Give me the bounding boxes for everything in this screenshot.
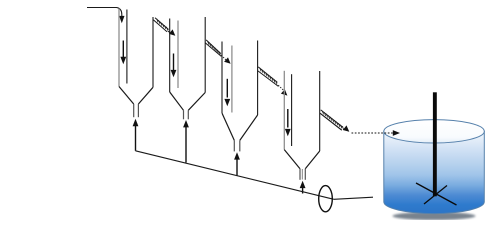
hopper H3 dip tube (231, 46, 233, 113)
hopper H1 inlet up arrow (133, 119, 139, 151)
hopper H2 inlet up arrow (183, 120, 189, 163)
hopper H2 internal down arrow (171, 54, 177, 78)
collection line segment after ellipse (334, 197, 373, 199)
hopper H1 dip tube (126, 10, 128, 84)
hopper H4 body (284, 71, 319, 180)
chute 4 (hatched) from H4 toward tank (320, 110, 349, 132)
stirrer shaft (433, 92, 437, 196)
hopper H2 dip tube (177, 21, 179, 89)
tank bottom shadow (393, 212, 476, 220)
hopper H4 neck inner gray line (301, 169, 303, 180)
chute 1 (hatched) from H1 to H2 (153, 18, 175, 36)
stirrer blade 1 (416, 183, 457, 205)
hopper H4 internal down arrow (285, 109, 291, 136)
hopper H4 inlet up arrow (300, 181, 306, 194)
mixing tank body (384, 131, 485, 213)
hopper H1 body (119, 9, 153, 118)
hopper H2 body (170, 17, 206, 119)
pump/sight-glass ellipse (319, 186, 333, 212)
hopper H3 internal down arrow (224, 79, 230, 107)
hopper H3 body (222, 41, 258, 152)
chute 3 (hatched) from H3 to H4 (258, 67, 288, 96)
mixing tank top ellipse (384, 120, 485, 143)
dashed transfer line into tank (352, 130, 401, 136)
hopper H1 internal down arrow (120, 41, 126, 65)
chute 2 (hatched) from H2 to H3 (205, 40, 230, 64)
hopper H4 dip tube (291, 74, 293, 146)
stirrer blade 2 (424, 186, 447, 205)
collection line (long diagonal) (136, 151, 334, 200)
feed line into hopper 1 (87, 8, 125, 24)
hopper H3 inlet up arrow (234, 152, 240, 175)
